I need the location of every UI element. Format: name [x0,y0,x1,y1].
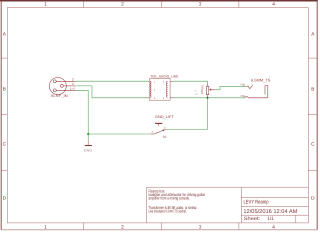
svg-text:10K: 10K [200,89,204,94]
svg-text:1: 1 [44,1,47,7]
svg-text:Sheet:: Sheet: [244,216,260,222]
svg-text:GND: GND [84,149,93,153]
svg-text:D: D [3,195,7,201]
svg-text:1/1: 1/1 [267,216,274,222]
wire transformer pin5 through junction to jack sleeve [173,97,245,99]
transformer right winding [167,81,168,97]
svg-text:3: 3 [199,1,202,7]
svg-text:4: 4 [272,224,275,230]
wire switch to sleeve net [167,98,208,130]
svg-text:2: 2 [121,224,124,230]
pot wiper arrowhead [209,89,211,91]
svg-text:TM1_AUDIO_LINE: TM1_AUDIO_LINE [150,75,178,79]
svg-text:P$1: P$1 [241,84,246,87]
wire XLR pin1 down to gnd junction [76,90,152,134]
connector XLRF_IN [49,78,75,95]
frame outer border [0,0,318,2]
jack 6.5MM_TS tip contact [247,85,252,89]
wire XLR pin2 to transformer pin1 [76,80,149,82]
svg-text:D: D [311,195,315,201]
svg-text:Use insulated 6.5mm TS socket.: Use insulated 6.5mm TS socket. [149,209,187,214]
svg-text:10K: 10K [195,93,200,96]
wire transformer pin4 to pot top [173,81,207,83]
junction sleeve node [206,97,208,99]
svg-text:12/05/2016 12:04 AM: 12/05/2016 12:04 AM [243,209,297,215]
svg-text:C: C [3,141,7,147]
transformer TM1 box [149,79,170,101]
svg-text:XLRF_IN: XLRF_IN [51,94,69,98]
transformer pin numbers [154,80,165,100]
svg-text:6.5MM_TS: 6.5MM_TS [251,78,271,82]
svg-text:3: 3 [199,224,202,230]
ground symbol GND [87,134,89,141]
junction gnd node [87,133,89,135]
svg-text:C: C [311,141,315,147]
svg-text:amplifier from a mixing consol: amplifier from a mixing console. [149,196,190,201]
svg-text:B: B [311,86,314,92]
title block box lines [147,187,309,223]
wire XLR pin3 to transformer pin3 [76,86,149,98]
svg-text:P$1: P$1 [241,95,246,98]
svg-text:1=3: 1=3 [70,88,75,91]
transformer pin stubs [148,81,173,98]
jack sleeve contact [245,97,248,98]
transformer left winding [150,81,151,97]
jack body [265,86,268,98]
svg-text:2: 2 [121,1,124,7]
svg-text:4: 4 [272,1,275,7]
svg-text:S1: S1 [163,135,167,139]
switch S1 GND_LIFT [151,124,167,134]
potentiometer R1 10K [206,83,216,98]
wire pot wiper to jack tip [216,86,247,90]
svg-text:GND_LIFT: GND_LIFT [155,115,175,119]
title block description text [149,188,206,213]
svg-text:LEVY Reamp: LEVY Reamp [244,199,269,205]
svg-text:1: 1 [44,224,47,230]
svg-text:R1: R1 [201,85,205,89]
svg-text:B: B [3,86,6,92]
XLR pin numbers [70,77,75,90]
